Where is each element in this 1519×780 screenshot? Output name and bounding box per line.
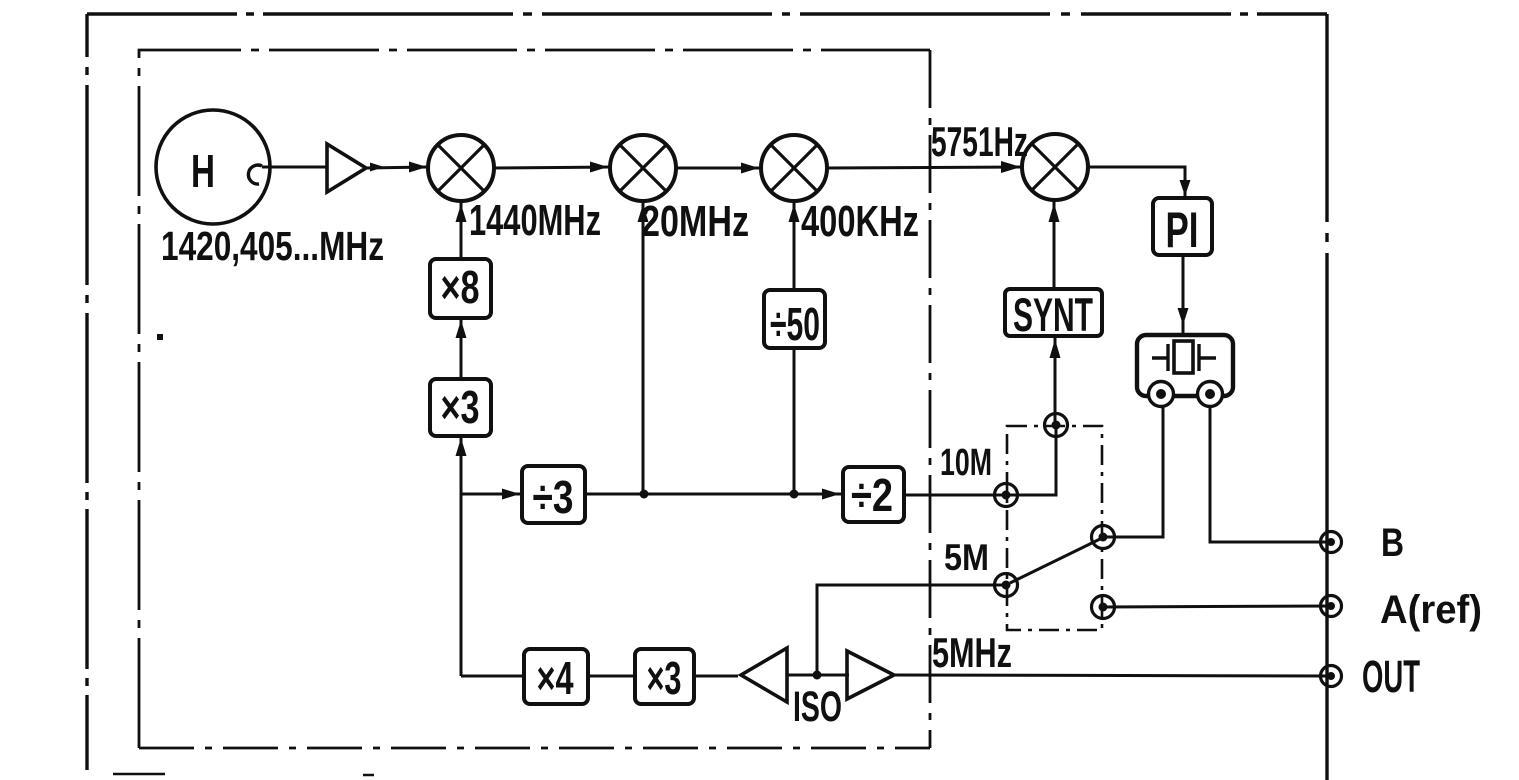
amplifier A1 [327,144,366,192]
wire divider /2 output to 10M node [903,494,1006,497]
mixer M2 [610,135,676,201]
wire SYNT to switch top node [1050,336,1061,425]
svg-text:ISO: ISO [793,683,842,731]
svg-text:1440MHz: 1440MHz [469,196,601,245]
divider /50 box [764,290,825,348]
wire mixer M3 down to /50 [789,201,800,290]
wire between ISO amplifiers [787,674,849,677]
svg-text:400KHz: 400KHz [801,197,919,246]
mixer M1 [428,135,494,201]
node switch upper right [1092,526,1115,549]
wire mixer M2 down to bus [638,201,649,494]
quartz oscillator box [1137,335,1233,396]
quartz output terminal left [1149,382,1174,407]
svg-text:5751Hz: 5751Hz [931,118,1028,165]
wire H to amplifier [262,166,326,169]
wire ISO junction to 5M node [817,585,1008,676]
svg-text:A(ref): A(ref) [1380,588,1482,632]
terminal OUT [1321,666,1342,687]
wire x4 to x3b [588,675,635,678]
svg-text:B: B [1381,521,1404,565]
svg-text:PI: PI [1166,202,1199,258]
svg-text:÷3: ÷3 [533,471,574,523]
terminal A(ref) [1321,596,1342,617]
node switch lower right [1092,596,1115,619]
wire bottom bus corner to x4 [461,675,524,678]
wire amplifier to mixer M1 [366,162,428,173]
mixer M4 [1022,134,1088,200]
SYNT box [1005,289,1102,336]
svg-text:÷50: ÷50 [770,298,820,350]
quartz output terminal right [1198,382,1223,407]
wire PI to quartz oscillator [1178,255,1189,335]
multiplier x3 box [430,379,491,436]
svg-text:20MHz: 20MHz [641,197,749,246]
inner enclosure border (dash-dot) [139,50,930,748]
svg-text:OUT: OUT [1362,651,1420,702]
multiplier x4 box [524,649,588,704]
node switch top [1045,414,1068,437]
wire 10M node to switch top node [1006,425,1056,495]
svg-text:10M: 10M [940,442,992,484]
wire mixer M3 to mixer M4 [827,161,1022,173]
PI controller box [1153,198,1212,255]
svg-text:H: H [191,145,215,197]
svg-text:×3: ×3 [647,652,682,704]
switch selector dash-dot box [1007,426,1102,630]
stray ink speck [157,334,163,340]
switch arm wire [1010,539,1100,583]
divider /3 box [522,466,585,523]
node 5M input [995,574,1018,597]
mixer M3 [761,135,827,201]
amplifier right (points right) [847,651,894,699]
ISO amplifier left (points left) [741,648,787,702]
wire mixer M2 to mixer M3 [676,163,761,174]
terminal B [1321,532,1342,553]
wire x3b to ISO amplifier [694,675,738,678]
wire amplifier to OUT terminal [894,675,1331,676]
junction dot ISO [813,671,822,680]
svg-text:1420,405...MHz: 1420,405...MHz [161,223,384,269]
multiplier x3b box [635,649,694,704]
svg-text:5M: 5M [944,537,989,578]
junction dot /50 line [790,490,799,499]
wire quartz right terminal to B terminal [1210,407,1331,542]
wire /50 down to bus [793,348,796,494]
svg-text:×3: ×3 [441,381,480,433]
svg-text:SYNT: SYNT [1013,288,1093,341]
wire divider /3 to divider /2 [585,489,842,500]
wire mixer M4 to PI [1088,167,1191,198]
wire junction to divider /3 [461,489,522,500]
multiplier x8 box [430,259,491,318]
wire mixer M1 to mixer M2 [494,162,610,173]
divider /2 box [843,467,904,522]
wire mixer M4 to SYNT [1049,200,1060,289]
svg-text:÷2: ÷2 [851,469,893,521]
svg-text:5MHz: 5MHz [932,629,1012,676]
wire up into x3 from bottom bus [456,436,467,676]
wire switch lower right to A terminal [1103,606,1331,607]
node 10M input [995,484,1018,507]
wire switch upper right to quartz left terminal [1103,407,1163,537]
svg-text:×8: ×8 [441,261,480,313]
junction dot M2 line [640,490,649,499]
wire mixer M1 to x8 [456,201,467,259]
svg-text:×4: ×4 [537,652,574,704]
H maser oscillator circle [156,110,270,224]
wire x3 to x8 [456,318,467,379]
